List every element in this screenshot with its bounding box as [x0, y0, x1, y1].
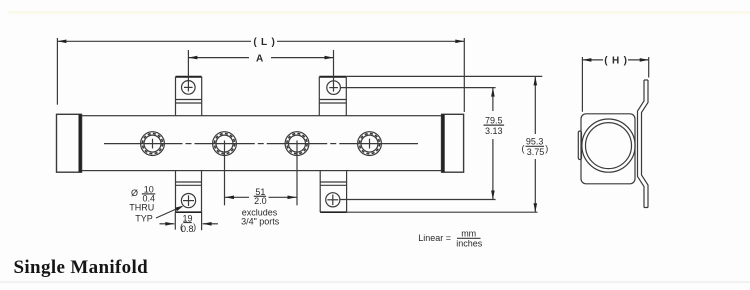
svg-text:Single Manifold: Single Manifold: [14, 257, 149, 278]
svg-text:(: (: [180, 222, 183, 232]
svg-text:A: A: [256, 54, 264, 65]
svg-text:(: (: [522, 144, 525, 154]
svg-text:95.3: 95.3: [526, 137, 544, 147]
svg-text:): ): [545, 144, 548, 154]
svg-text:THRU: THRU: [129, 202, 154, 212]
svg-text:Linear =: Linear =: [418, 233, 451, 243]
svg-text:19: 19: [182, 213, 192, 223]
svg-text:( L ): ( L ): [253, 37, 275, 48]
svg-text:TYP: TYP: [135, 214, 153, 224]
svg-text:Ø: Ø: [131, 188, 138, 198]
svg-text:( H ): ( H ): [604, 56, 627, 67]
svg-text:79.5: 79.5: [485, 116, 503, 126]
svg-text:3.75: 3.75: [527, 147, 545, 157]
svg-text:3/4" ports: 3/4" ports: [241, 217, 280, 227]
svg-text:): ): [193, 222, 196, 232]
svg-text:mm: mm: [461, 229, 476, 239]
svg-text:2.0: 2.0: [254, 196, 267, 206]
svg-text:inches: inches: [456, 239, 483, 249]
svg-text:3.13: 3.13: [485, 126, 503, 136]
